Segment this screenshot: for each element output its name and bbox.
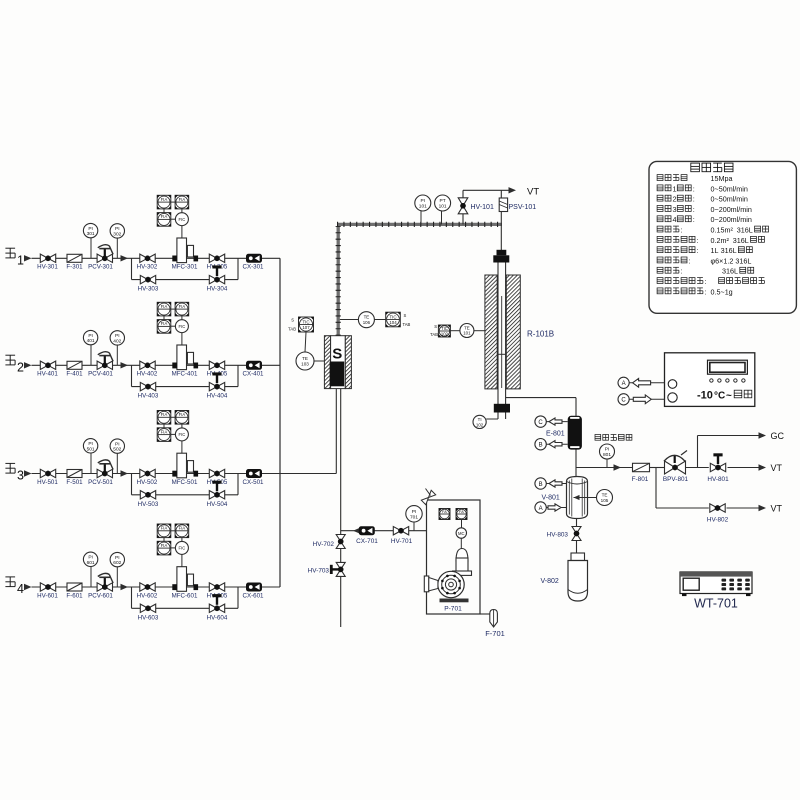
- svg-text:S: S: [404, 313, 407, 318]
- svg-text::: :: [705, 287, 707, 296]
- svg-text:HV-303: HV-303: [138, 286, 159, 293]
- svg-text:HV-703: HV-703: [308, 567, 330, 574]
- svg-text:HV-302: HV-302: [137, 264, 158, 271]
- svg-text:PI: PI: [421, 198, 426, 204]
- svg-text:S: S: [434, 324, 437, 329]
- svg-text:1L: 1L: [711, 246, 719, 255]
- svg-text:4: 4: [17, 582, 24, 596]
- svg-text:HV-404: HV-404: [207, 393, 228, 400]
- svg-text:HV-402: HV-402: [137, 371, 158, 378]
- svg-text:PI: PI: [115, 333, 120, 339]
- svg-text:602: 602: [113, 560, 121, 566]
- svg-text:1: 1: [17, 253, 24, 267]
- svg-text:~: ~: [726, 391, 732, 402]
- svg-text:104: 104: [389, 320, 397, 325]
- svg-text:HV-601: HV-601: [37, 592, 58, 599]
- svg-text:4: 4: [673, 215, 677, 224]
- svg-text:FIA: FIA: [161, 304, 168, 309]
- svg-text:701: 701: [410, 514, 418, 520]
- svg-text:E-801: E-801: [546, 431, 565, 438]
- svg-text:2: 2: [673, 195, 677, 204]
- svg-text:302: 302: [113, 232, 121, 238]
- svg-text:HV-801: HV-801: [707, 476, 729, 483]
- svg-text:105: 105: [601, 498, 609, 503]
- svg-text:F-401: F-401: [66, 371, 83, 378]
- svg-text:301: 301: [87, 231, 95, 237]
- svg-text:VT: VT: [527, 187, 539, 198]
- svg-text:501: 501: [87, 446, 95, 452]
- svg-text:MFC-501: MFC-501: [172, 479, 198, 486]
- svg-text:801: 801: [603, 452, 611, 458]
- svg-text:HV-101: HV-101: [471, 204, 494, 211]
- svg-text:MFC-601: MFC-601: [172, 592, 198, 599]
- svg-text:316L: 316L: [722, 267, 738, 276]
- svg-text:PCV-401: PCV-401: [88, 371, 113, 378]
- svg-text:0.15m²: 0.15m²: [711, 226, 734, 235]
- svg-text:CX-501: CX-501: [243, 479, 265, 486]
- svg-text:PI: PI: [115, 555, 120, 561]
- svg-text:316L: 316L: [733, 236, 749, 245]
- svg-text:MC: MC: [458, 531, 465, 536]
- svg-text:TAB: TAB: [288, 327, 296, 332]
- svg-text:FIA: FIA: [161, 526, 168, 531]
- svg-text:HV-301: HV-301: [37, 264, 58, 271]
- svg-text:316L: 316L: [721, 246, 737, 255]
- svg-text:PI: PI: [412, 509, 417, 515]
- svg-text:VT: VT: [771, 463, 783, 473]
- svg-text:502: 502: [113, 447, 121, 453]
- svg-text:MFC-301: MFC-301: [172, 264, 198, 271]
- svg-text::: :: [689, 256, 691, 265]
- svg-text::: :: [705, 277, 707, 286]
- svg-text:PI: PI: [115, 441, 120, 447]
- svg-text:316L: 316L: [737, 226, 753, 235]
- svg-text:PI: PI: [88, 226, 93, 232]
- svg-text:FIA: FIA: [161, 321, 168, 326]
- svg-text:S: S: [332, 346, 342, 363]
- svg-text::: :: [693, 184, 695, 193]
- svg-text:GC: GC: [771, 431, 785, 441]
- svg-text:F-801: F-801: [632, 476, 649, 483]
- svg-text:103: 103: [301, 361, 309, 366]
- svg-text:1: 1: [673, 184, 677, 193]
- svg-text:HV-604: HV-604: [207, 614, 228, 621]
- svg-text:FIC: FIC: [179, 546, 186, 551]
- svg-text:TIC: TIC: [389, 314, 396, 319]
- svg-text:A: A: [539, 506, 543, 512]
- svg-text:106: 106: [363, 320, 371, 325]
- svg-text::: :: [697, 246, 699, 255]
- svg-text:PCV-601: PCV-601: [88, 592, 113, 599]
- svg-text:FIA: FIA: [161, 197, 168, 202]
- svg-text:402: 402: [113, 339, 121, 345]
- svg-text:FIC: FIC: [179, 432, 186, 437]
- svg-text:101: 101: [439, 204, 447, 210]
- svg-text:FIA: FIA: [179, 197, 186, 202]
- svg-text:CX-301: CX-301: [243, 264, 265, 271]
- svg-text:CX-701: CX-701: [356, 538, 378, 545]
- svg-text:HV-802: HV-802: [707, 517, 729, 524]
- svg-text:TIC: TIC: [302, 319, 309, 324]
- svg-text:601: 601: [87, 560, 95, 566]
- svg-text:A: A: [622, 381, 626, 387]
- svg-text:15Mpa: 15Mpa: [711, 174, 733, 183]
- svg-text:TE: TE: [302, 356, 308, 361]
- svg-text:F-301: F-301: [66, 264, 83, 271]
- svg-text:PCV-301: PCV-301: [88, 264, 113, 271]
- svg-text:VT: VT: [771, 504, 783, 514]
- svg-text:PI: PI: [88, 555, 93, 561]
- svg-text:3: 3: [673, 205, 677, 214]
- svg-text:0~50ml/min: 0~50ml/min: [711, 184, 748, 193]
- svg-text:HV-304: HV-304: [207, 286, 228, 293]
- svg-text:PCV-501: PCV-501: [88, 479, 113, 486]
- svg-text:B: B: [539, 443, 543, 449]
- svg-text:TAB: TAB: [403, 322, 411, 327]
- svg-text:2: 2: [17, 360, 24, 374]
- svg-text:P-701: P-701: [444, 606, 462, 613]
- svg-text:HV-501: HV-501: [37, 479, 58, 486]
- svg-text:FA: FA: [459, 510, 464, 514]
- svg-text:C: C: [538, 420, 543, 426]
- svg-text:°C: °C: [714, 391, 725, 402]
- svg-text:CX-401: CX-401: [243, 371, 265, 378]
- svg-text:PI: PI: [88, 441, 93, 447]
- svg-text:HV-504: HV-504: [207, 501, 228, 508]
- svg-text:F-501: F-501: [66, 479, 83, 486]
- svg-text:B: B: [539, 482, 543, 488]
- svg-text:0.2m²: 0.2m²: [711, 236, 730, 245]
- svg-text:TIC: TIC: [441, 326, 448, 331]
- svg-text:TE: TE: [602, 492, 608, 497]
- svg-text:V-802: V-802: [541, 578, 559, 585]
- svg-text:TI: TI: [478, 417, 482, 422]
- svg-text:101: 101: [463, 331, 471, 336]
- svg-text:R-101B: R-101B: [527, 330, 554, 339]
- svg-text:FIA: FIA: [161, 412, 168, 417]
- svg-text:PT: PT: [440, 198, 446, 204]
- svg-text::: :: [681, 226, 683, 235]
- svg-text:HV-502: HV-502: [137, 479, 158, 486]
- svg-text:F-701: F-701: [485, 629, 505, 638]
- svg-text:0~200ml/min: 0~200ml/min: [711, 205, 752, 214]
- svg-text:TAB: TAB: [430, 332, 438, 337]
- svg-text:PSV-101: PSV-101: [509, 204, 537, 211]
- svg-text:φ6×1.2 316L: φ6×1.2 316L: [711, 256, 752, 265]
- svg-text:101: 101: [419, 204, 427, 210]
- svg-text:0~50ml/min: 0~50ml/min: [711, 195, 748, 204]
- svg-text:107: 107: [302, 325, 310, 330]
- svg-text:PI: PI: [605, 447, 610, 453]
- svg-text:HV-603: HV-603: [138, 614, 159, 621]
- svg-text:CX-601: CX-601: [243, 592, 265, 599]
- svg-text:102: 102: [441, 331, 449, 336]
- svg-text::: :: [693, 215, 695, 224]
- svg-text:WT-701: WT-701: [694, 597, 738, 611]
- svg-text:BPV-801: BPV-801: [663, 476, 689, 483]
- svg-text:-10: -10: [697, 390, 713, 402]
- svg-text:HV-803: HV-803: [547, 532, 569, 539]
- svg-text:HV-403: HV-403: [138, 393, 159, 400]
- svg-text::: :: [693, 195, 695, 204]
- svg-text:0~200ml/min: 0~200ml/min: [711, 215, 752, 224]
- svg-text:FA: FA: [442, 510, 447, 514]
- svg-text:S: S: [291, 318, 294, 323]
- svg-text::: :: [681, 267, 683, 276]
- svg-text:HV-401: HV-401: [37, 371, 58, 378]
- svg-text:HV-701: HV-701: [391, 538, 413, 545]
- svg-text:HV-602: HV-602: [137, 592, 158, 599]
- svg-text:FIA: FIA: [179, 412, 186, 417]
- svg-text:FIA: FIA: [161, 429, 168, 434]
- svg-text:PI: PI: [88, 333, 93, 339]
- svg-text:102: 102: [476, 423, 484, 428]
- svg-text:3: 3: [17, 469, 24, 483]
- svg-text:401: 401: [87, 338, 95, 344]
- svg-text:FIC: FIC: [179, 217, 186, 222]
- svg-text:HV-503: HV-503: [138, 501, 159, 508]
- svg-text:MFC-401: MFC-401: [172, 371, 198, 378]
- svg-text:FIA: FIA: [161, 543, 168, 548]
- svg-text:F-601: F-601: [66, 592, 83, 599]
- svg-text:V-801: V-801: [542, 495, 560, 502]
- svg-text:PI: PI: [115, 226, 120, 232]
- svg-text:FIC: FIC: [179, 324, 186, 329]
- svg-text:C: C: [621, 398, 626, 404]
- svg-text::: :: [693, 205, 695, 214]
- svg-text::: :: [697, 236, 699, 245]
- svg-text:FIA: FIA: [161, 214, 168, 219]
- svg-text:0.5~1g: 0.5~1g: [711, 287, 733, 296]
- svg-text:HV-702: HV-702: [313, 541, 335, 548]
- svg-text:FIA: FIA: [179, 526, 186, 531]
- svg-text:FIA: FIA: [179, 304, 186, 309]
